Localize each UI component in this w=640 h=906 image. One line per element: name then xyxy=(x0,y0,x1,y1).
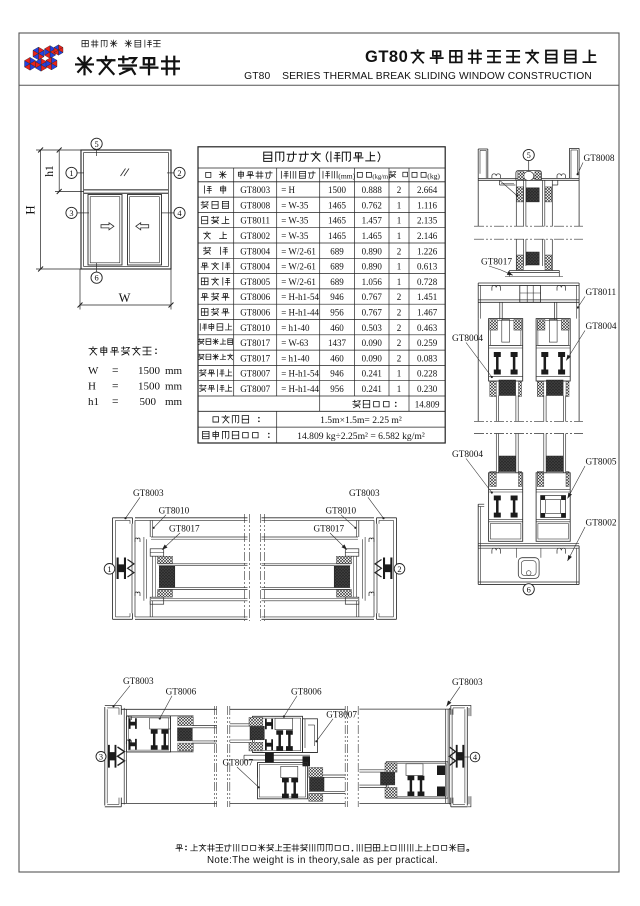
svg-text:1.116: 1.116 xyxy=(417,200,437,210)
svg-text:0.503: 0.503 xyxy=(362,323,383,333)
svg-text:= H-h1-44: = H-h1-44 xyxy=(281,308,319,318)
svg-text:689: 689 xyxy=(330,246,344,256)
svg-text:GT8017: GT8017 xyxy=(314,524,345,534)
svg-text:0.767: 0.767 xyxy=(362,292,383,302)
svg-text:GT8017: GT8017 xyxy=(481,258,512,268)
svg-text:0.241: 0.241 xyxy=(362,384,382,394)
svg-text:= h1-40: = h1-40 xyxy=(281,323,310,333)
svg-text:0.230: 0.230 xyxy=(417,384,438,394)
svg-text:1: 1 xyxy=(107,565,111,574)
svg-text:GT8002: GT8002 xyxy=(586,519,617,529)
svg-text:(kg): (kg) xyxy=(427,171,440,180)
svg-text:mm: mm xyxy=(165,365,183,377)
svg-text:GT8002: GT8002 xyxy=(240,231,270,241)
svg-text:2.146: 2.146 xyxy=(417,231,438,241)
svg-text:GT80: GT80 xyxy=(365,48,408,66)
svg-text:GT8004: GT8004 xyxy=(240,262,270,272)
svg-text:689: 689 xyxy=(330,262,344,272)
svg-text:h1: h1 xyxy=(44,165,56,177)
svg-text:GT8003: GT8003 xyxy=(452,677,483,687)
svg-text:1.451: 1.451 xyxy=(417,292,437,302)
svg-text:0.241: 0.241 xyxy=(362,369,382,379)
svg-text:2: 2 xyxy=(397,246,402,256)
svg-text:0.228: 0.228 xyxy=(417,369,438,379)
svg-text:(kg/m): (kg/m) xyxy=(372,173,390,180)
svg-text:= W/2-61: = W/2-61 xyxy=(281,277,316,287)
svg-text:W: W xyxy=(119,291,131,305)
svg-text:2.135: 2.135 xyxy=(417,216,438,226)
svg-text:GT8004: GT8004 xyxy=(586,322,617,332)
svg-text:GT8006: GT8006 xyxy=(166,686,197,696)
svg-text:1.056: 1.056 xyxy=(362,277,383,287)
svg-text:GT8005: GT8005 xyxy=(240,277,270,287)
svg-text:689: 689 xyxy=(330,277,344,287)
svg-text:1465: 1465 xyxy=(328,200,347,210)
svg-text:h1: h1 xyxy=(88,396,99,408)
svg-text:0.890: 0.890 xyxy=(362,262,383,272)
svg-text:= W-35: = W-35 xyxy=(281,231,309,241)
svg-text:1500: 1500 xyxy=(138,365,161,377)
svg-text:5: 5 xyxy=(527,151,531,160)
svg-text:GT8017: GT8017 xyxy=(240,338,270,348)
svg-text:0.090: 0.090 xyxy=(362,353,383,363)
svg-text:= W-63: = W-63 xyxy=(281,338,309,348)
svg-text:1: 1 xyxy=(397,277,402,287)
svg-text:1500: 1500 xyxy=(138,381,161,393)
svg-text:GT8007: GT8007 xyxy=(223,758,254,768)
svg-text:1.457: 1.457 xyxy=(362,216,383,226)
svg-text:= W-35: = W-35 xyxy=(281,200,309,210)
svg-text:5: 5 xyxy=(95,140,99,149)
svg-text:GT8011: GT8011 xyxy=(586,288,617,298)
svg-text:2: 2 xyxy=(397,353,402,363)
svg-text:= H: = H xyxy=(281,185,295,195)
svg-text:956: 956 xyxy=(330,384,344,394)
svg-text:0.259: 0.259 xyxy=(417,338,438,348)
svg-text:GT8017: GT8017 xyxy=(169,524,200,534)
svg-text:= H-h1-54: = H-h1-54 xyxy=(281,292,319,302)
svg-text:2.664: 2.664 xyxy=(417,185,438,195)
svg-text:3: 3 xyxy=(99,753,103,762)
svg-text:GT8005: GT8005 xyxy=(586,458,617,468)
svg-text:GT8007: GT8007 xyxy=(240,369,270,379)
svg-text:1465: 1465 xyxy=(328,216,347,226)
svg-text:W: W xyxy=(88,365,99,377)
svg-text:14.809 kg÷2.25m² = 6.582 kg/m²: 14.809 kg÷2.25m² = 6.582 kg/m² xyxy=(297,431,425,442)
svg-text:GT8003: GT8003 xyxy=(133,488,164,498)
svg-text:H: H xyxy=(88,381,96,393)
svg-text:GT8003: GT8003 xyxy=(240,185,270,195)
svg-text:= W-35: = W-35 xyxy=(281,216,309,226)
svg-text:1: 1 xyxy=(397,384,402,394)
svg-text:1.467: 1.467 xyxy=(417,308,438,318)
svg-text:0.463: 0.463 xyxy=(417,323,438,333)
svg-text:GT8004: GT8004 xyxy=(452,450,483,460)
svg-text:6: 6 xyxy=(527,585,531,594)
svg-text:0.728: 0.728 xyxy=(417,277,438,287)
svg-text:(mm): (mm) xyxy=(338,171,355,180)
svg-text:= W/2-61: = W/2-61 xyxy=(281,262,316,272)
svg-text:1: 1 xyxy=(397,216,402,226)
svg-text:2: 2 xyxy=(177,169,181,178)
svg-text:GT8007: GT8007 xyxy=(240,384,270,394)
svg-text:= W/2-61: = W/2-61 xyxy=(281,246,316,256)
svg-text:GT8003: GT8003 xyxy=(349,488,380,498)
svg-text:GT8010: GT8010 xyxy=(240,323,270,333)
svg-text:= H-h1-44: = H-h1-44 xyxy=(281,384,319,394)
svg-text:3: 3 xyxy=(69,209,73,218)
svg-text:14.809: 14.809 xyxy=(415,400,440,410)
svg-text:GT8008: GT8008 xyxy=(584,154,615,164)
svg-text:Note:The weight is in theory,s: Note:The weight is in theory,sale as per… xyxy=(207,855,438,866)
svg-text:0.762: 0.762 xyxy=(362,200,382,210)
svg-text:1: 1 xyxy=(397,369,402,379)
svg-text:=: = xyxy=(112,381,119,393)
svg-text:1: 1 xyxy=(397,262,402,272)
svg-text:1: 1 xyxy=(69,169,73,178)
svg-text:mm: mm xyxy=(165,396,183,408)
svg-text:GT8010: GT8010 xyxy=(326,505,357,515)
svg-text:500: 500 xyxy=(140,396,157,408)
svg-text:1.465: 1.465 xyxy=(362,231,383,241)
svg-text:0.890: 0.890 xyxy=(362,246,383,256)
svg-text:1465: 1465 xyxy=(328,231,347,241)
svg-text:956: 956 xyxy=(330,308,344,318)
svg-text:GT8017: GT8017 xyxy=(240,353,270,363)
svg-text:=: = xyxy=(112,365,119,377)
svg-text:GT8003: GT8003 xyxy=(123,676,154,686)
svg-text:0.090: 0.090 xyxy=(362,338,383,348)
svg-text:0.083: 0.083 xyxy=(417,353,438,363)
svg-text:GT8006: GT8006 xyxy=(240,292,270,302)
svg-text:460: 460 xyxy=(330,323,344,333)
svg-text:1: 1 xyxy=(397,200,402,210)
svg-text:2: 2 xyxy=(397,565,401,574)
svg-text:GT8004: GT8004 xyxy=(452,334,483,344)
svg-text:GT80 SERIES THERMAL BREAK S: GT80 SERIES THERMAL BREAK SLIDING WINDOW… xyxy=(244,71,592,82)
svg-text:0.613: 0.613 xyxy=(417,262,438,272)
svg-text:1: 1 xyxy=(397,231,402,241)
svg-text:GT8010: GT8010 xyxy=(159,505,190,515)
svg-text:1.226: 1.226 xyxy=(417,246,438,256)
svg-text:2: 2 xyxy=(397,185,402,195)
svg-text:GT8007: GT8007 xyxy=(326,709,357,719)
svg-text:2: 2 xyxy=(397,308,402,318)
svg-text:= H-h1-54: = H-h1-54 xyxy=(281,369,319,379)
svg-text:6: 6 xyxy=(95,274,99,283)
svg-text:460: 460 xyxy=(330,353,344,363)
svg-text:2: 2 xyxy=(397,323,402,333)
svg-text:1.5m×1.5m= 2.25 m²: 1.5m×1.5m= 2.25 m² xyxy=(320,415,402,426)
svg-text:2: 2 xyxy=(397,338,402,348)
svg-text:1437: 1437 xyxy=(328,338,347,348)
svg-text:946: 946 xyxy=(330,369,344,379)
svg-text:GT8004: GT8004 xyxy=(240,246,270,256)
svg-text:=: = xyxy=(112,396,119,408)
svg-text:= h1-40: = h1-40 xyxy=(281,353,310,363)
svg-text:GT8008: GT8008 xyxy=(240,200,270,210)
svg-text:GT8006: GT8006 xyxy=(291,686,322,696)
svg-text:1500: 1500 xyxy=(328,185,347,195)
svg-text:H: H xyxy=(23,205,38,214)
svg-text:2: 2 xyxy=(397,292,402,302)
svg-text:0.767: 0.767 xyxy=(362,308,383,318)
svg-text:GT8011: GT8011 xyxy=(240,216,270,226)
svg-text:GT8006: GT8006 xyxy=(240,308,270,318)
svg-text:946: 946 xyxy=(330,292,344,302)
svg-text:mm: mm xyxy=(165,381,183,393)
svg-text:0.888: 0.888 xyxy=(362,185,383,195)
